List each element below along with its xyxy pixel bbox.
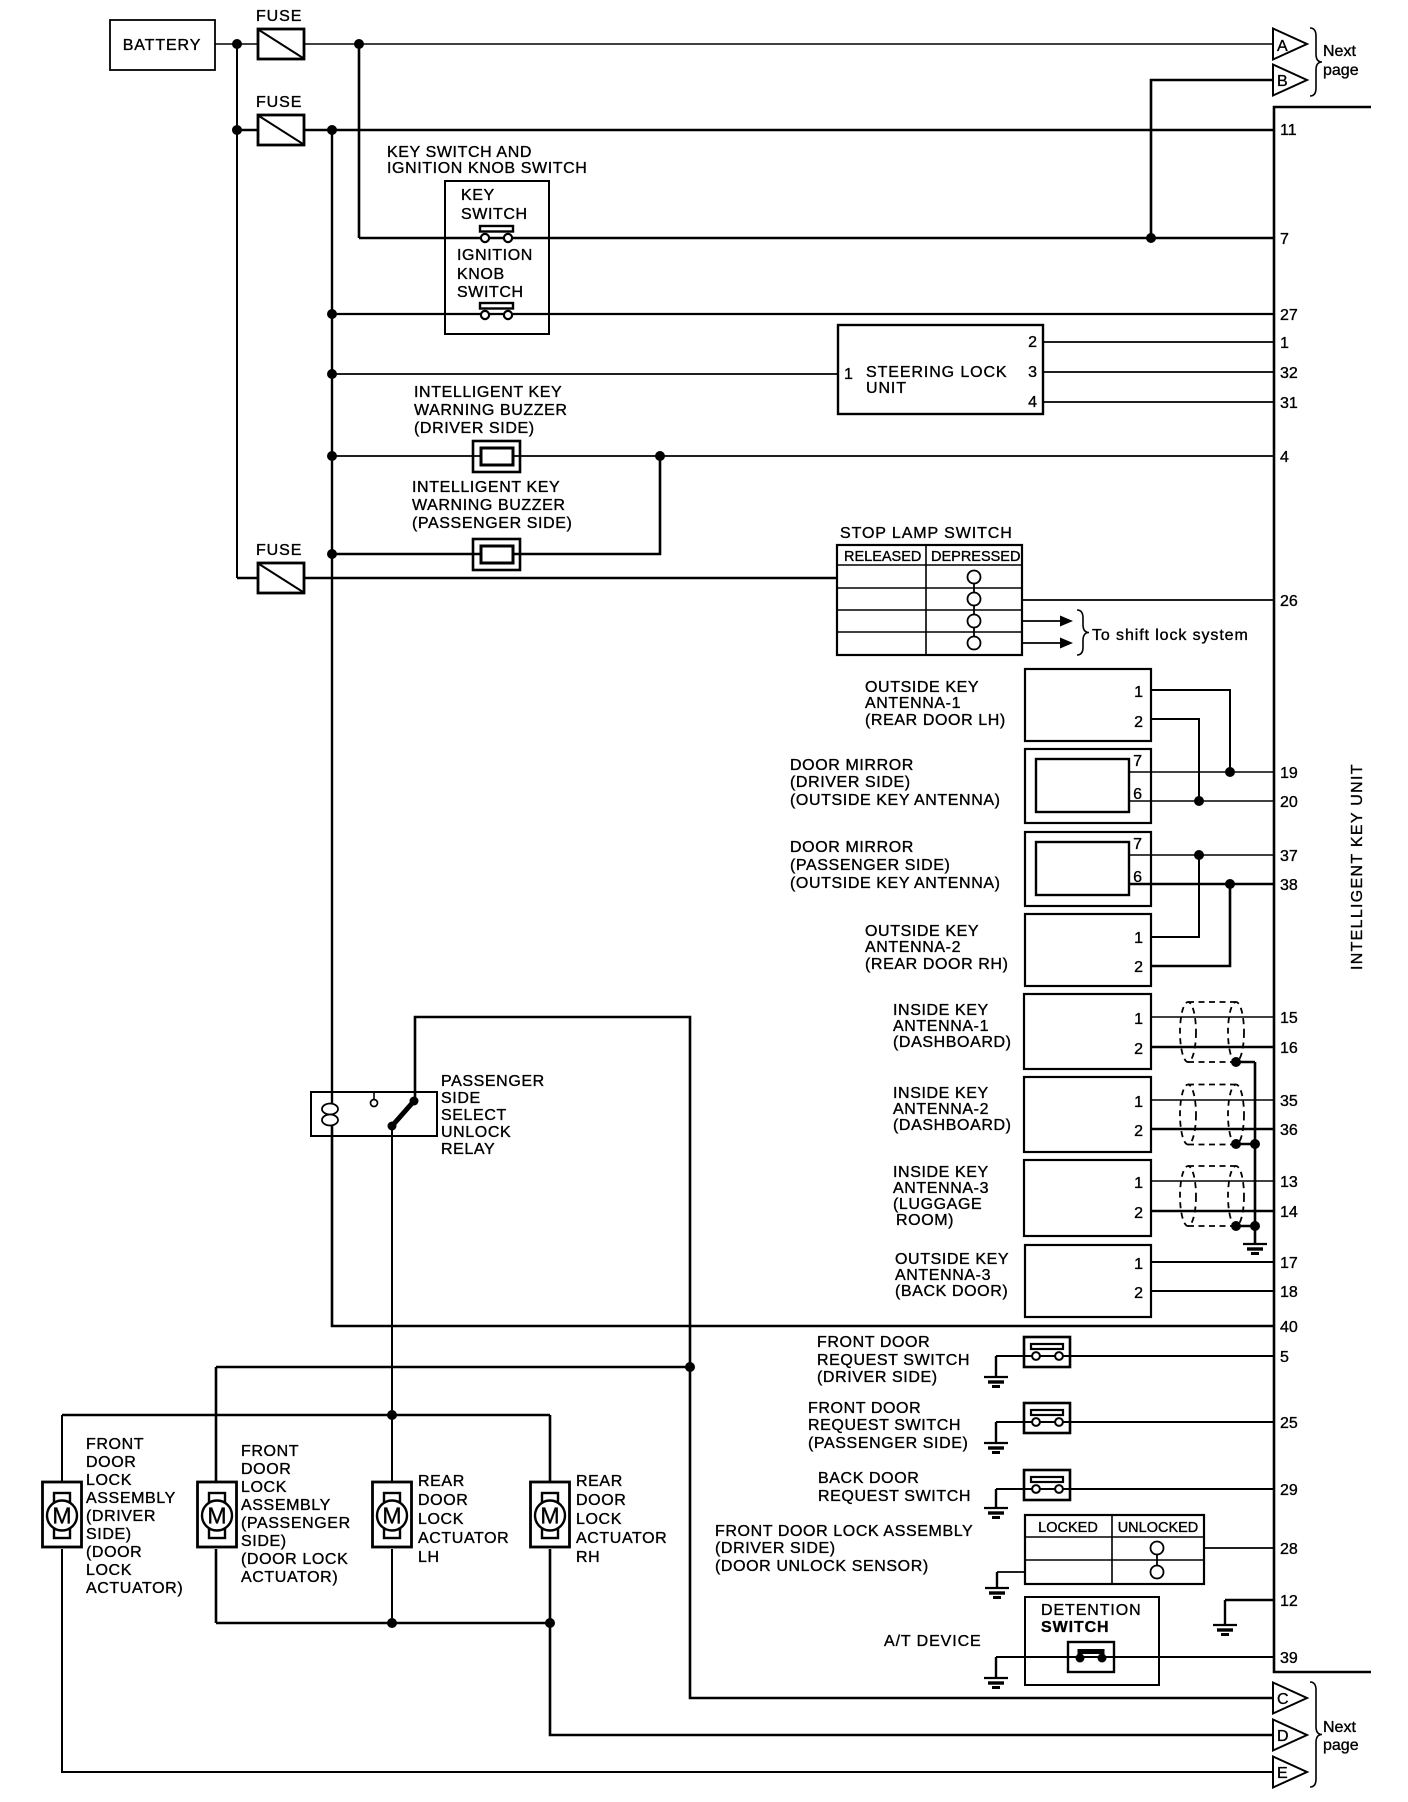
shield symbol antenna-1 pair — [1180, 1002, 1244, 1062]
outside key antenna-1 box — [1025, 669, 1151, 741]
wire feed to steering lock unit pin 1 — [332, 373, 838, 375]
svg-text:REQUEST SWITCH: REQUEST SWITCH — [818, 1488, 971, 1505]
motor M driver door lock actuator — [43, 1482, 82, 1547]
svg-text:DOOR: DOOR — [241, 1461, 291, 1478]
key switch contact — [480, 226, 513, 242]
svg-text:1: 1 — [1134, 1094, 1143, 1111]
junction RH actuator bottom — [545, 1618, 555, 1628]
svg-text:REAR: REAR — [576, 1473, 623, 1490]
svg-text:ANTENNA-1: ANTENNA-1 — [893, 1018, 989, 1035]
svg-text:D: D — [1277, 1728, 1289, 1745]
svg-text:37: 37 — [1280, 848, 1298, 865]
svg-text:LOCK: LOCK — [418, 1511, 464, 1528]
junction pin 20 — [1194, 796, 1204, 806]
wire battery to fuse F1 — [215, 43, 258, 45]
wire door mirror driver pin7 to pin 19 — [1129, 771, 1274, 773]
svg-text:1: 1 — [1134, 1175, 1143, 1192]
svg-text:SWITCH: SWITCH — [457, 284, 524, 301]
svg-text:RELEASED: RELEASED — [844, 549, 921, 565]
label ignition knob switch — [457, 247, 533, 301]
svg-text:IGNITION: IGNITION — [457, 247, 533, 264]
svg-text:(DASHBOARD): (DASHBOARD) — [893, 1034, 1012, 1051]
label next page top — [1323, 43, 1359, 79]
detention switch contact — [1068, 1642, 1114, 1672]
svg-text:LOCKED: LOCKED — [1038, 1520, 1098, 1536]
svg-text:1: 1 — [1134, 1256, 1143, 1273]
svg-text:6: 6 — [1133, 786, 1142, 803]
svg-text:UNLOCKED: UNLOCKED — [1118, 1520, 1199, 1536]
junction shield drain 1 — [1231, 1057, 1241, 1067]
svg-text:FUSE: FUSE — [256, 542, 302, 559]
svg-text:Next: Next — [1323, 43, 1356, 60]
front door request switch driver side — [1024, 1337, 1070, 1367]
svg-text:29: 29 — [1280, 1482, 1298, 1499]
ground shield drain — [1243, 1244, 1267, 1254]
svg-text:INSIDE KEY: INSIDE KEY — [893, 1085, 989, 1102]
svg-text:M: M — [207, 1503, 226, 1529]
label inside key antenna-2 — [893, 1085, 1012, 1134]
junction C-line / motor feed — [685, 1362, 695, 1372]
svg-text:SWITCH: SWITCH — [1041, 1619, 1110, 1636]
arrowhead shift lock 2 — [1060, 638, 1073, 649]
svg-text:(OUTSIDE KEY ANTENNA): (OUTSIDE KEY ANTENNA) — [790, 792, 1001, 809]
svg-text:2: 2 — [1134, 1123, 1143, 1140]
svg-text:1: 1 — [1134, 1011, 1143, 1028]
svg-text:(DRIVER: (DRIVER — [86, 1508, 156, 1525]
wire warning buzzer passenger row — [332, 456, 660, 554]
wire detention switch row to pin 39 — [996, 1656, 1274, 1658]
back door request switch — [1024, 1470, 1070, 1500]
svg-text:7: 7 — [1280, 231, 1289, 248]
wire RH actuator to connector D — [550, 1549, 1273, 1735]
wire stop lamp to shift lock arrow 2 — [1022, 642, 1062, 644]
svg-text:SIDE): SIDE) — [241, 1533, 287, 1550]
svg-text:ASSEMBLY: ASSEMBLY — [241, 1497, 331, 1514]
label key switch and ignition knob switch — [387, 144, 587, 177]
brace next page top — [1310, 28, 1322, 96]
wire relay arm to C-line vertical — [415, 1017, 1273, 1698]
svg-text:1: 1 — [1134, 684, 1143, 701]
wire inside key antenna-1 pin1 to pin 15 — [1151, 1016, 1274, 1018]
wire warning buzzer driver row to pin 4 — [332, 455, 1274, 457]
stop lamp switch table — [837, 525, 1022, 655]
ground pin 12 — [1213, 1600, 1237, 1635]
relay contact stub — [371, 1092, 378, 1107]
inside key antenna-1 box — [1024, 994, 1151, 1069]
svg-text:FRONT DOOR: FRONT DOOR — [817, 1334, 930, 1351]
ground front door request switch driver — [984, 1356, 1008, 1387]
outside key antenna-3 box — [1025, 1245, 1151, 1317]
wire motor feed horizontal — [216, 1366, 690, 1369]
wire steering pin4 to unit pin 31 — [1043, 401, 1274, 403]
svg-text:2: 2 — [1028, 334, 1037, 351]
svg-text:DOOR: DOOR — [86, 1454, 136, 1471]
label front door lock assembly passenger side — [241, 1443, 351, 1586]
svg-text:3: 3 — [1028, 364, 1037, 381]
label intelligent key warning buzzer driver — [414, 384, 568, 437]
svg-text:WARNING BUZZER: WARNING BUZZER — [412, 497, 566, 514]
motor M passenger door lock actuator — [198, 1482, 237, 1547]
svg-text:2: 2 — [1134, 714, 1143, 731]
svg-text:LH: LH — [418, 1549, 440, 1566]
svg-text:LOCK: LOCK — [241, 1479, 287, 1496]
door unlock sensor table — [1025, 1515, 1204, 1584]
ignition knob switch contact — [480, 303, 513, 319]
svg-text:DETENTION: DETENTION — [1041, 1602, 1142, 1619]
motor M rear door lock actuator LH — [373, 1482, 412, 1547]
svg-text:REAR: REAR — [418, 1473, 465, 1490]
connector D to next page — [1273, 1720, 1307, 1751]
wire battery vertical feed to F2/F3 — [236, 44, 238, 578]
label inside key antenna-3 — [893, 1164, 989, 1229]
motor M rear door lock actuator RH — [531, 1482, 570, 1547]
svg-text:BACK DOOR: BACK DOOR — [818, 1470, 919, 1487]
inside key antenna-3 box — [1024, 1160, 1151, 1236]
svg-text:1: 1 — [844, 366, 853, 383]
brace to shift lock system — [1077, 610, 1089, 655]
label next page bottom — [1323, 1719, 1359, 1754]
svg-text:(REAR DOOR RH): (REAR DOOR RH) — [865, 956, 1009, 973]
wire back door request switch to pin 29 — [996, 1488, 1274, 1490]
wire shield drain 1 — [1236, 1061, 1255, 1064]
svg-text:ANTENNA-3: ANTENNA-3 — [893, 1180, 989, 1197]
wire door unlock sensor ground stub — [997, 1571, 1025, 1573]
svg-text:(PASSENGER SIDE): (PASSENGER SIDE) — [412, 515, 572, 532]
wire branch to connector B — [1151, 80, 1273, 238]
svg-text:40: 40 — [1280, 1319, 1298, 1336]
label key switch — [461, 187, 528, 223]
wire inside key antenna-2 pin1 to pin 35 — [1151, 1099, 1274, 1101]
svg-text:4: 4 — [1280, 449, 1289, 466]
svg-text:38: 38 — [1280, 877, 1298, 894]
svg-text:SELECT: SELECT — [441, 1107, 507, 1124]
wire door mirror passenger pin6 to pin 38 — [1129, 883, 1274, 886]
junction buzzer passenger join — [655, 451, 665, 461]
wire stop lamp switch to pin 26 — [1022, 599, 1274, 601]
svg-text:To shift lock system: To shift lock system — [1092, 627, 1249, 644]
brace next page bottom — [1310, 1682, 1322, 1787]
label outside key antenna-2 — [865, 923, 1009, 973]
svg-text:2: 2 — [1134, 1205, 1143, 1222]
wire relay arm down through LH actuator — [391, 1126, 393, 1483]
wire ignition knob switch row to pin 27 — [332, 313, 1274, 315]
svg-text:A: A — [1277, 38, 1288, 55]
svg-text:(DRIVER SIDE): (DRIVER SIDE) — [817, 1369, 938, 1386]
label front door request switch passenger — [808, 1400, 968, 1452]
junction shield drain 2 — [1231, 1139, 1241, 1149]
label back door request switch — [818, 1470, 971, 1505]
junction shield drain 3b — [1250, 1221, 1260, 1231]
svg-text:15: 15 — [1280, 1010, 1298, 1027]
junction F1 output branch — [354, 39, 364, 49]
ground door unlock sensor — [985, 1572, 1009, 1598]
svg-text:E: E — [1277, 1765, 1288, 1782]
svg-text:25: 25 — [1280, 1415, 1298, 1432]
svg-text:(PASSENGER: (PASSENGER — [241, 1515, 351, 1532]
wire outside key antenna-1 pin2 — [1151, 719, 1199, 801]
junction F2 output branch — [327, 125, 337, 135]
svg-text:C: C — [1277, 1691, 1289, 1708]
wire LH actuator bottom — [391, 1549, 393, 1623]
label front door request switch driver — [817, 1334, 970, 1386]
svg-text:SWITCH: SWITCH — [461, 206, 528, 223]
svg-text:ACTUATOR: ACTUATOR — [418, 1530, 509, 1547]
wire outside key antenna-3 pin1 to pin 17 — [1151, 1261, 1274, 1263]
svg-text:ANTENNA-3: ANTENNA-3 — [895, 1267, 991, 1284]
svg-text:DOOR: DOOR — [576, 1492, 626, 1509]
wire inside key antenna-2 pin2 to pin 36 — [1151, 1128, 1274, 1131]
svg-text:A/T DEVICE: A/T DEVICE — [884, 1633, 982, 1650]
svg-text:M: M — [382, 1503, 401, 1529]
buzzer passenger side — [473, 539, 520, 570]
wire shield drain 2 — [1236, 1143, 1255, 1146]
svg-text:7: 7 — [1133, 753, 1142, 770]
wire battery to fuse F2 — [237, 129, 258, 132]
svg-text:LOCK: LOCK — [576, 1511, 622, 1528]
svg-text:36: 36 — [1280, 1122, 1298, 1139]
svg-text:5: 5 — [1280, 1349, 1289, 1366]
junction pin 38 — [1225, 879, 1235, 889]
svg-text:16: 16 — [1280, 1040, 1298, 1057]
svg-text:STEERING LOCK: STEERING LOCK — [866, 364, 1008, 381]
relay coil — [322, 1104, 338, 1126]
svg-text:2: 2 — [1134, 1285, 1143, 1302]
svg-text:26: 26 — [1280, 593, 1298, 610]
key switch / ignition knob switch box — [445, 181, 549, 334]
svg-text:(DOOR LOCK: (DOOR LOCK — [241, 1551, 348, 1568]
svg-text:IGNITION KNOB SWITCH: IGNITION KNOB SWITCH — [387, 160, 587, 177]
fuse F3 — [256, 542, 304, 593]
junction LH actuator bottom — [387, 1618, 397, 1628]
svg-text:KNOB: KNOB — [457, 266, 505, 283]
wire door mirror passenger pin7 to pin 37 — [1129, 854, 1274, 856]
wire steering pin2 to unit pin 1 — [1043, 341, 1274, 343]
label front door lock assembly driver (door unlock sensor) — [715, 1523, 973, 1575]
wire battery to fuse F3 — [237, 577, 258, 580]
junction pin7/B branch — [1146, 233, 1156, 243]
svg-text:ACTUATOR): ACTUATOR) — [241, 1569, 338, 1586]
svg-text:STOP LAMP SWITCH: STOP LAMP SWITCH — [840, 525, 1013, 542]
svg-text:REQUEST SWITCH: REQUEST SWITCH — [817, 1352, 970, 1369]
svg-text:DOOR MIRROR: DOOR MIRROR — [790, 839, 914, 856]
svg-text:INSIDE KEY: INSIDE KEY — [893, 1164, 989, 1181]
svg-text:1: 1 — [1280, 335, 1289, 352]
svg-text:SIDE): SIDE) — [86, 1526, 132, 1543]
svg-text:32: 32 — [1280, 365, 1298, 382]
svg-text:FRONT DOOR LOCK ASSEMBLY: FRONT DOOR LOCK ASSEMBLY — [715, 1523, 973, 1540]
svg-text:(OUTSIDE KEY ANTENNA): (OUTSIDE KEY ANTENNA) — [790, 875, 1001, 892]
front door request switch passenger side — [1024, 1403, 1070, 1433]
steering lock unit box U1 — [838, 325, 1043, 414]
svg-text:28: 28 — [1280, 1541, 1298, 1558]
wire key switch row to pin 7 — [359, 237, 1274, 240]
svg-text:14: 14 — [1280, 1204, 1298, 1221]
svg-text:M: M — [52, 1503, 71, 1529]
svg-text:FRONT DOOR: FRONT DOOR — [808, 1400, 921, 1417]
label intelligent key warning buzzer passenger — [412, 479, 572, 532]
svg-text:WARNING BUZZER: WARNING BUZZER — [414, 402, 568, 419]
svg-text:ANTENNA-2: ANTENNA-2 — [893, 1101, 989, 1118]
svg-text:INSIDE KEY: INSIDE KEY — [893, 1002, 989, 1019]
svg-text:(DOOR UNLOCK SENSOR): (DOOR UNLOCK SENSOR) — [715, 1558, 929, 1575]
svg-text:FUSE: FUSE — [256, 8, 302, 25]
wire F2 output to pin 11 — [304, 129, 1274, 132]
svg-text:LOCK: LOCK — [86, 1472, 132, 1489]
svg-text:DEPRESSED: DEPRESSED — [931, 549, 1020, 565]
svg-text:(LUGGAGE: (LUGGAGE — [893, 1196, 982, 1213]
svg-text:2: 2 — [1134, 959, 1143, 976]
battery box — [110, 20, 215, 70]
junction pin 37 — [1194, 850, 1204, 860]
svg-text:OUTSIDE KEY: OUTSIDE KEY — [865, 679, 979, 696]
buzzer driver side — [473, 441, 520, 472]
svg-text:7: 7 — [1133, 836, 1142, 853]
svg-text:20: 20 — [1280, 794, 1298, 811]
svg-text:31: 31 — [1280, 395, 1298, 412]
arrowhead shift lock 1 — [1060, 616, 1073, 627]
svg-text:ANTENNA-1: ANTENNA-1 — [865, 695, 961, 712]
wire pin 12 to ground — [1225, 1599, 1274, 1602]
junction buzzer driver feed — [327, 451, 337, 461]
wire inside key antenna-3 pin1 to pin 13 — [1151, 1180, 1274, 1182]
wire motor bottom bus — [216, 1622, 550, 1625]
svg-text:UNLOCK: UNLOCK — [441, 1124, 511, 1141]
svg-text:INTELLIGENT KEY: INTELLIGENT KEY — [414, 384, 562, 401]
svg-text:2: 2 — [1134, 1041, 1143, 1058]
A/T device box — [1025, 1597, 1159, 1685]
wire steering pin3 to unit pin 32 — [1043, 371, 1274, 373]
svg-text:OUTSIDE KEY: OUTSIDE KEY — [865, 923, 979, 940]
label outside key antenna-1 — [865, 679, 1006, 729]
svg-text:LOCK: LOCK — [86, 1562, 132, 1579]
inside key antenna-2 box — [1024, 1077, 1151, 1152]
svg-text:12: 12 — [1280, 1593, 1298, 1610]
svg-text:PASSENGER: PASSENGER — [441, 1073, 545, 1090]
junction relay arm / motor top bus — [387, 1410, 397, 1420]
door mirror passenger side box (outside key antenna) — [1025, 832, 1151, 906]
label door mirror passenger side — [790, 839, 1001, 892]
wire stop lamp to shift lock arrow 1 — [1022, 620, 1062, 622]
wire shield drain vertical to ground — [1254, 1062, 1257, 1244]
svg-text:(DRIVER SIDE): (DRIVER SIDE) — [790, 774, 911, 791]
svg-text:M: M — [540, 1503, 559, 1529]
label front door lock assembly driver side — [86, 1436, 183, 1597]
wire passenger assembly bottom vertical — [215, 1549, 218, 1623]
svg-text:page: page — [1323, 62, 1359, 79]
wire RH actuator top vertical — [549, 1415, 552, 1483]
ground front door request switch passenger — [984, 1422, 1008, 1453]
wire driver assembly top vertical — [61, 1415, 63, 1483]
svg-text:13: 13 — [1280, 1174, 1298, 1191]
ground A/T device — [984, 1657, 1008, 1688]
wire long vertical feed bus to relay coil — [331, 130, 333, 1104]
svg-text:ASSEMBLY: ASSEMBLY — [86, 1490, 176, 1507]
junction ignition feed — [327, 309, 337, 319]
svg-text:B: B — [1277, 73, 1288, 90]
wire F3 output to stop lamp switch — [304, 577, 837, 580]
junction F2 tap — [232, 125, 242, 135]
label rear door lock actuator RH — [576, 1473, 667, 1566]
wire front door request switch driver to pin 5 — [996, 1355, 1274, 1357]
svg-text:18: 18 — [1280, 1284, 1298, 1301]
svg-text:RELAY: RELAY — [441, 1141, 495, 1158]
svg-text:1: 1 — [1134, 930, 1143, 947]
shield symbol antenna-2 pair — [1180, 1085, 1244, 1145]
svg-text:UNIT: UNIT — [866, 380, 907, 397]
wire door mirror driver pin6 to pin 20 — [1129, 800, 1274, 802]
wire F1 output to connector A (next page) — [304, 43, 1273, 45]
junction steering feed — [327, 369, 337, 379]
label outside key antenna-3 — [895, 1251, 1009, 1300]
svg-text:(PASSENGER SIDE): (PASSENGER SIDE) — [790, 857, 950, 874]
connector B to next page — [1273, 65, 1307, 96]
wire door unlock sensor to pin 28 — [1204, 1547, 1274, 1549]
svg-text:39: 39 — [1280, 1650, 1298, 1667]
ground back door request switch — [984, 1489, 1008, 1518]
svg-text:(BACK DOOR): (BACK DOOR) — [895, 1283, 1008, 1300]
svg-text:(PASSENGER SIDE): (PASSENGER SIDE) — [808, 1435, 968, 1452]
bus line INTELLIGENT KEY UNIT left edge — [1274, 107, 1371, 1672]
svg-text:DOOR: DOOR — [418, 1492, 468, 1509]
wire relay coil out to pin 40 — [332, 1124, 1274, 1326]
fuse F2 — [256, 94, 304, 145]
wire outside key antenna-1 pin1 — [1151, 690, 1230, 772]
wire shield drain 3 — [1236, 1225, 1255, 1228]
junction buzzer passenger feed — [327, 549, 337, 559]
wire branch down from F1 to key switch — [358, 44, 361, 238]
svg-text:(DASHBOARD): (DASHBOARD) — [893, 1117, 1012, 1134]
svg-text:INTELLIGENT KEY: INTELLIGENT KEY — [412, 479, 560, 496]
relay box (passenger side select unlock relay) — [311, 1092, 437, 1136]
svg-text:REQUEST SWITCH: REQUEST SWITCH — [808, 1417, 961, 1434]
svg-text:ACTUATOR: ACTUATOR — [576, 1530, 667, 1547]
relay armature — [388, 1097, 419, 1131]
svg-text:(REAR DOOR LH): (REAR DOOR LH) — [865, 712, 1006, 729]
outside key antenna-2 box — [1025, 914, 1151, 986]
label rear door lock actuator LH — [418, 1473, 509, 1566]
svg-text:35: 35 — [1280, 1093, 1298, 1110]
wire outside key antenna-2 pin2 — [1151, 884, 1230, 966]
wire driver assembly to connector E — [62, 1549, 1273, 1772]
label passenger side select unlock relay — [441, 1073, 545, 1158]
wire front door request switch passenger to pin 25 — [996, 1421, 1274, 1423]
wire inside key antenna-1 pin2 to pin 16 — [1151, 1046, 1274, 1049]
connector E to next page — [1273, 1757, 1307, 1788]
svg-text:SIDE: SIDE — [441, 1090, 481, 1107]
svg-text:OUTSIDE KEY: OUTSIDE KEY — [895, 1251, 1009, 1268]
wire outside key antenna-2 pin1 — [1151, 855, 1199, 937]
svg-text:6: 6 — [1133, 869, 1142, 886]
svg-text:ROOM): ROOM) — [896, 1212, 954, 1229]
junction shield drain 2b — [1250, 1139, 1260, 1149]
junction shield drain 3 — [1231, 1221, 1241, 1231]
svg-text:page: page — [1323, 1737, 1359, 1754]
connector A to next page — [1273, 29, 1307, 60]
svg-text:11: 11 — [1280, 122, 1297, 139]
svg-text:FUSE: FUSE — [256, 94, 302, 111]
fuse F1 — [256, 8, 304, 59]
shield symbol antenna-3 pair — [1180, 1166, 1244, 1226]
svg-text:(DRIVER SIDE): (DRIVER SIDE) — [414, 420, 535, 437]
svg-text:Next: Next — [1323, 1719, 1356, 1736]
svg-text:(DOOR: (DOOR — [86, 1544, 142, 1561]
door mirror driver side box (outside key antenna) — [1025, 749, 1151, 823]
svg-text:KEY SWITCH AND: KEY SWITCH AND — [387, 144, 532, 161]
wire passenger assembly top vertical — [215, 1367, 218, 1483]
svg-text:27: 27 — [1280, 307, 1298, 324]
label inside key antenna-1 — [893, 1002, 1012, 1051]
svg-text:17: 17 — [1280, 1255, 1298, 1272]
